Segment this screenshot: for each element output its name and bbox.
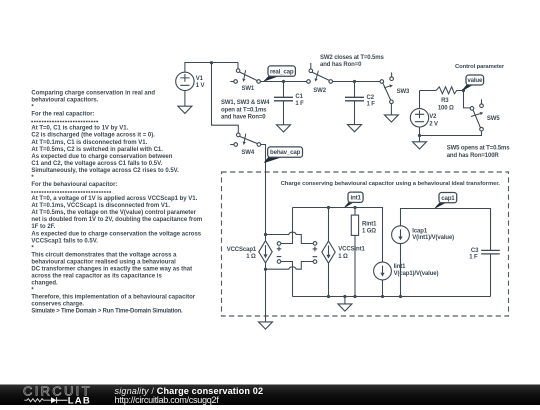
- svg-text:1 GΩ: 1 GΩ: [362, 229, 376, 235]
- svg-text:100 Ω: 100 Ω: [438, 105, 454, 111]
- svg-text:Charge conserving behavioural: Charge conserving behavioural capacitor …: [281, 181, 501, 187]
- svg-text:VCCScap1: VCCScap1: [227, 247, 257, 253]
- svg-text:1 F: 1 F: [295, 101, 304, 107]
- svg-text:net is doubled from 1V to 2V,: net is doubled from 1V to 2V, doubling t…: [31, 217, 202, 223]
- svg-text:At T=0.5ms, C2 is switched in: At T=0.5ms, C2 is switched in parallel w…: [31, 147, 163, 153]
- svg-text:cap1: cap1: [441, 195, 455, 202]
- svg-text:C3: C3: [471, 248, 479, 254]
- svg-text:1 F: 1 F: [469, 254, 478, 260]
- svg-text:Comparing charge conservation: Comparing charge conservation in real an…: [31, 90, 155, 96]
- svg-text:conserves charge.: conserves charge.: [31, 302, 84, 308]
- svg-text:At T=0, C1 is charged to 1V by: At T=0, C1 is charged to 1V by V1.: [31, 126, 128, 132]
- svg-text:SW1: SW1: [242, 86, 255, 92]
- svg-text:behavioural capacitor realised: behavioural capacitor realised using a b…: [31, 259, 176, 265]
- svg-text:This circuit demonstrates that: This circuit demonstrates that the volta…: [31, 252, 177, 258]
- svg-text:C2 is discharged (the voltage: C2 is discharged (the voltage across it …: [31, 133, 155, 139]
- svg-text:SW5 opens at T=0.5ms: SW5 opens at T=0.5ms: [447, 145, 511, 151]
- svg-text:At T=0.1ms, VCCScap1 is discon: At T=0.1ms, VCCScap1 is disconnected fro…: [31, 203, 170, 209]
- svg-text:Simultaneously, the voltage ac: Simultaneously, the voltage across C2 ri…: [31, 168, 179, 174]
- svg-text:At T=0.1ms, C1 is disconnected: At T=0.1ms, C1 is disconnected from V1.: [31, 140, 147, 146]
- svg-text:SW2 closes at T=0.5ms: SW2 closes at T=0.5ms: [320, 55, 384, 61]
- svg-text:Therefore, this implementation: Therefore, this implementation of a beha…: [31, 295, 195, 301]
- svg-text:C1 and C2, the voltage across: C1 and C2, the voltage across C1 falls t…: [31, 161, 162, 167]
- svg-text:1 F: 1 F: [367, 102, 376, 108]
- svg-text:1 V: 1 V: [196, 83, 205, 89]
- svg-text:behav_cap: behav_cap: [270, 149, 301, 156]
- svg-text:value: value: [467, 77, 483, 84]
- svg-text:DC transformer changes in exac: DC transformer changes in exactly the sa…: [31, 266, 192, 272]
- svg-text:LAB: LAB: [68, 396, 91, 405]
- svg-text:R3: R3: [441, 98, 449, 104]
- svg-text:and has Ron=0: and has Ron=0: [320, 62, 362, 68]
- svg-text:behavioural capacitors.: behavioural capacitors.: [31, 98, 98, 104]
- svg-text:At T=0, a voltage of 1V is app: At T=0, a voltage of 1V is applied acros…: [31, 196, 197, 202]
- svg-text:V2: V2: [429, 114, 437, 120]
- svg-text:SW1, SW3 & SW4: SW1, SW3 & SW4: [221, 100, 270, 106]
- svg-text:real_cap: real_cap: [270, 68, 294, 75]
- svg-text:Control parameter: Control parameter: [455, 64, 505, 70]
- svg-text:At T=0.5ms, the voltage on the: At T=0.5ms, the voltage on the V(value) …: [31, 210, 196, 216]
- svg-text:C2: C2: [367, 95, 375, 101]
- svg-text:SW2: SW2: [313, 88, 326, 94]
- svg-text:1F to 2F.: 1F to 2F.: [31, 224, 55, 230]
- svg-text:As expected due to charge cons: As expected due to charge conservation b…: [31, 154, 172, 160]
- svg-text:SW5: SW5: [487, 116, 500, 122]
- svg-text:For the behavioural capacitor:: For the behavioural capacitor:: [31, 182, 117, 188]
- svg-text:Iint1: Iint1: [394, 264, 407, 270]
- svg-text:VCCScap1 falls to 0.5V.: VCCScap1 falls to 0.5V.: [31, 238, 98, 244]
- svg-text:As expected due to charge cons: As expected due to charge conservation t…: [31, 231, 201, 237]
- svg-text:For the real capacitor:: For the real capacitor:: [31, 112, 94, 118]
- svg-text:Simulate > Time Domain > Run T: Simulate > Time Domain > Run Time-Domain…: [31, 309, 183, 315]
- svg-text:SW4: SW4: [241, 150, 254, 156]
- svg-text:1 Ω: 1 Ω: [246, 254, 256, 260]
- svg-text:and have Ron=0: and have Ron=0: [221, 114, 266, 120]
- svg-text:VCCSint1: VCCSint1: [338, 247, 365, 253]
- svg-text:and has Ron=100R: and has Ron=100R: [447, 153, 500, 159]
- svg-text:Rint1: Rint1: [362, 222, 377, 228]
- svg-text:Icap1: Icap1: [412, 228, 428, 234]
- svg-text:1 Ω: 1 Ω: [338, 254, 348, 260]
- svg-text:http://circuitlab.com/csugq2f: http://circuitlab.com/csugq2f: [115, 395, 220, 405]
- svg-text:changed.: changed.: [31, 281, 58, 287]
- svg-text:V1: V1: [196, 76, 204, 82]
- svg-text:2 V: 2 V: [429, 122, 438, 128]
- svg-text:int1: int1: [350, 194, 361, 201]
- svg-text:V(int1)/V(value): V(int1)/V(value): [412, 235, 454, 241]
- svg-text:open at T=0.1ms: open at T=0.1ms: [221, 107, 267, 113]
- svg-text:across the real capacitor as i: across the real capacitor as its capacit…: [31, 274, 162, 280]
- svg-text:C1: C1: [295, 94, 303, 100]
- svg-text:SW3: SW3: [397, 89, 410, 95]
